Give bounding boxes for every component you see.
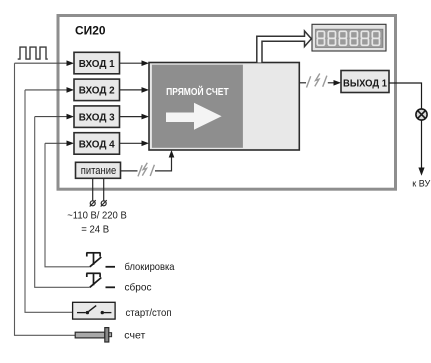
display digit 2 [328, 31, 335, 45]
svg-text:к ВУ: к ВУ [412, 179, 430, 189]
wire ВХОД3 to counter block [120, 116, 143, 118]
wire питание to isolation [121, 170, 138, 172]
pulse sensor счет [75, 328, 111, 342]
power terminal lead 1 [92, 178, 94, 200]
white count-up arrow [166, 103, 222, 130]
block ВХОД 4 [74, 133, 120, 155]
galvanic isolation symbol (output) [307, 74, 327, 88]
svg-text:питание: питание [81, 165, 117, 177]
svg-text:ВЫХОД 1: ВЫХОД 1 [343, 77, 387, 89]
wire lamp down to ВУ [421, 120, 423, 168]
left bus wire to блокировка button [45, 143, 90, 266]
wire input 1 from pulse source [15, 62, 68, 64]
left bus wire to счет sensor [15, 63, 76, 335]
arrow into counter block row2 [142, 87, 150, 93]
svg-text:= 24 В: = 24 В [81, 225, 109, 236]
svg-text:~110 В/ 220 В: ~110 В/ 220 В [67, 210, 127, 221]
fixed contact dash сброс [106, 286, 116, 288]
wire counter block to output isolation [299, 82, 306, 84]
arrow into counter block row1 [142, 60, 150, 66]
wire ВЫХОД 1 to lamp [389, 83, 422, 109]
display digit 4 [350, 31, 357, 45]
wire ВХОД2 to counter block [120, 89, 143, 91]
arrow into ВХОД 3 [67, 114, 75, 120]
arrow into ВЫХОД 1 [334, 80, 342, 86]
left bus wire to старт/стоп switch [25, 90, 73, 312]
bus arrow to display [257, 31, 312, 63]
toggle switch box старт/стоп [73, 302, 116, 319]
arrow into ВХОД 1 [67, 60, 75, 66]
block ВХОД 1 [74, 52, 120, 74]
arrow into counter block row3 [142, 114, 150, 120]
wire input 2 [25, 89, 67, 91]
svg-text:ВХОД 2: ВХОД 2 [79, 86, 115, 97]
dark panel ПРЯМОЙ СЧЕТ [152, 65, 243, 148]
svg-text:ВХОД 1: ВХОД 1 [79, 59, 115, 70]
terminal circle 1 [90, 200, 96, 206]
wire ВХОД1 to counter block [120, 62, 143, 64]
display digit 5 [361, 31, 368, 45]
block питание [76, 162, 121, 178]
digital display module [312, 24, 386, 51]
svg-text:счет: счет [124, 331, 145, 342]
terminal circle 2 [101, 200, 107, 206]
wire input 4 [45, 142, 67, 144]
display digit 1 [317, 31, 324, 45]
pulse waveform glyph [18, 47, 48, 59]
display digit 3 [339, 31, 346, 45]
svg-text:ПРЯМОЙ СЧЕТ: ПРЯМОЙ СЧЕТ [166, 85, 229, 98]
block ВХОД 3 [74, 106, 120, 128]
svg-text:блокировка: блокировка [125, 261, 175, 273]
arrow into counter block row4 [142, 141, 150, 147]
lamp (load) symbol [416, 109, 427, 120]
wire ВХОД4 to counter block [120, 142, 143, 144]
push button сброс [86, 273, 101, 287]
svg-text:СИ20: СИ20 [75, 26, 106, 38]
galvanic isolation symbol (power) [138, 163, 154, 177]
arrow up into counter block [169, 150, 175, 158]
arrow into ВХОД 2 [67, 87, 75, 93]
display digit 6 [372, 31, 379, 45]
fixed contact dash блокировка [106, 266, 116, 268]
push button блокировка [86, 253, 101, 267]
svg-text:ВХОД 4: ВХОД 4 [79, 139, 115, 150]
left bus wire to сброс button [35, 117, 90, 288]
device outline box СИ20 [58, 16, 396, 190]
svg-text:сброс: сброс [125, 282, 152, 294]
power terminal lead 2 [103, 178, 105, 200]
block ВХОД 2 [74, 79, 120, 101]
wire isolation up into counter block [155, 157, 172, 171]
counter function block [149, 63, 299, 151]
arrow to external device [418, 168, 424, 176]
svg-text:старт/стоп: старт/стоп [126, 308, 172, 319]
arrow into ВХОД 4 [67, 141, 75, 147]
svg-text:ВХОД 3: ВХОД 3 [79, 113, 115, 124]
wire input 3 [35, 116, 67, 118]
wire isolation to ВЫХОД 1 [328, 82, 334, 84]
block ВЫХОД 1 [341, 71, 389, 93]
